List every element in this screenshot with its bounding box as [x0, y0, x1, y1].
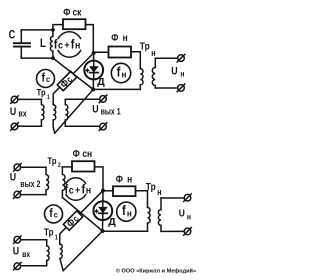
wire Uvyh1 bottom	[65, 125, 99, 127]
capacitor C	[14, 30, 30, 58]
label Uvyh1	[92, 104, 121, 117]
annotation circle fc+fn	[58, 32, 80, 39]
svg-text:н: н	[75, 40, 80, 52]
label fc+fn	[54, 37, 81, 52]
svg-text:сн: сн	[82, 148, 92, 160]
label L	[40, 37, 46, 50]
output terminal Un bottom (bottom)	[184, 228, 192, 236]
output terminal Uvyh2 top	[14, 164, 22, 172]
svg-text:н: н	[180, 69, 184, 79]
input terminal Uvx top	[11, 96, 19, 104]
filter box Fn (bottom)	[113, 186, 136, 196]
wire top junction to Fn box	[94, 51, 109, 53]
svg-text:Тр: Тр	[140, 41, 150, 53]
label Fn (bottom)	[116, 174, 133, 186]
label Fn (top)	[111, 32, 128, 44]
svg-text:Тр: Тр	[48, 155, 57, 166]
wire tank top to filter Fsk	[53, 25, 63, 30]
svg-text:© ООО «Кирилл и Мефодий»: © ООО «Кирилл и Мефодий»	[116, 267, 196, 274]
label fc+fn (bottom)	[65, 182, 92, 197]
annotation circle fc (bottom)	[45, 205, 63, 223]
output terminal Un bottom	[177, 84, 185, 92]
wire Un top	[155, 57, 177, 59]
svg-text:вых 2: вых 2	[20, 179, 41, 189]
svg-text:C: C	[9, 29, 16, 43]
transformer Trn primary winding (top)	[140, 69, 143, 90]
svg-text:Ф: Ф	[111, 32, 118, 44]
svg-text:с: с	[54, 210, 59, 220]
wire bottom junction to Trn primary bottom	[93, 88, 140, 90]
transformer Tr1 secondary winding	[53, 105, 56, 134]
svg-text:+: +	[75, 185, 80, 197]
label Uvx (bottom)	[13, 246, 31, 259]
diagonal wire Tr2 secondary bottom to bottom junction	[62, 198, 102, 232]
svg-text:Тр: Тр	[146, 181, 156, 193]
wire top junction to Fn box (bottom)	[103, 190, 113, 192]
input terminal Uvx top (bottom)	[14, 236, 22, 244]
transformer Tr2 secondary winding	[62, 167, 65, 198]
wire Un bottom (bottom)	[161, 230, 184, 232]
svg-text:с: с	[58, 40, 63, 52]
filter box Fsk	[63, 19, 86, 29]
diode D (bottom)	[93, 191, 112, 231]
wire Uvx bottom (bottom)	[21, 265, 47, 267]
svg-text:н: н	[122, 69, 127, 80]
label Uvx	[10, 106, 27, 119]
label Fsn	[73, 148, 93, 160]
input terminal Uvx bottom (bottom)	[14, 262, 22, 270]
transformer Tr2 primary winding	[46, 167, 49, 194]
svg-text:U: U	[179, 208, 185, 220]
svg-text:н: н	[123, 32, 128, 44]
label fc	[42, 72, 51, 85]
svg-text:+: +	[64, 40, 69, 52]
diagonal wire bottom junction to Tr1 secondary V vertex	[55, 89, 93, 133]
output terminal Uvyh1 bottom	[99, 123, 107, 131]
diode D (top)	[84, 53, 103, 89]
transformer Tr1 secondary winding (bottom)	[60, 244, 63, 271]
svg-text:н: н	[127, 174, 132, 186]
svg-text:Тр: Тр	[37, 87, 46, 98]
svg-text:Тр: Тр	[44, 227, 54, 238]
diagonal wire tank bottom to bottom junction	[53, 58, 93, 89]
label D (top)	[97, 76, 105, 88]
transformer Tr1 primary winding	[41, 99, 44, 126]
wire Fsn to top junction	[95, 167, 104, 191]
filter box Fc (tilted)	[57, 71, 76, 90]
svg-text:f: f	[49, 208, 53, 221]
wire Uvyh1 top	[65, 98, 99, 100]
svg-text:н: н	[151, 48, 155, 58]
wire Uvx top (bottom)	[21, 239, 47, 241]
wire Tr2 secondary to Fsn box	[62, 166, 72, 168]
diagonal wire top junction through Fc box to Tr1 secondary (bottom)	[60, 191, 103, 244]
wire Uvyh2 bottom	[21, 194, 46, 196]
svg-text:н: н	[127, 208, 132, 219]
svg-text:н: н	[187, 212, 191, 222]
svg-text:1: 1	[55, 234, 59, 242]
diagonal wire top junction through Fc box to Tr1 secondary	[53, 53, 93, 105]
label Fc tilted (bottom)	[65, 213, 81, 229]
svg-text:f: f	[42, 72, 46, 85]
label C	[9, 29, 16, 43]
wire tank top	[21, 29, 53, 31]
label Tr1 (bottom)	[44, 227, 58, 242]
label Un (top)	[171, 66, 185, 79]
label Uvyh2	[10, 172, 41, 189]
label Trn (top)	[140, 41, 156, 58]
inductor L	[50, 30, 52, 58]
svg-text:вых 1: вых 1	[101, 107, 122, 117]
wire Un top (bottom)	[161, 197, 184, 199]
wire Uvx top	[18, 98, 42, 100]
svg-text:вх: вх	[18, 109, 27, 119]
wire Fn box to Trn primary (bottom)	[136, 191, 148, 208]
svg-text:U: U	[13, 246, 19, 258]
svg-text:н: н	[157, 187, 161, 197]
svg-text:с: с	[46, 74, 51, 84]
transformer Trn primary winding (bottom)	[148, 207, 151, 231]
wire Un bottom	[155, 87, 177, 89]
svg-text:U: U	[10, 172, 16, 184]
svg-text:Д: Д	[108, 216, 116, 228]
filter box Fn (top)	[109, 47, 132, 58]
transformer Tr1 primary winding (bottom)	[47, 240, 49, 266]
svg-text:U: U	[171, 66, 177, 78]
wire tank bottom	[21, 57, 53, 59]
svg-text:с: с	[69, 185, 74, 197]
node top junction	[92, 51, 96, 55]
svg-text:н: н	[86, 185, 91, 197]
output terminal Un top (bottom)	[184, 194, 192, 202]
label Fsk	[63, 7, 81, 19]
node tank top junction	[51, 28, 55, 32]
input terminal Uvx bottom	[11, 123, 19, 131]
svg-text:Ф: Ф	[73, 148, 80, 160]
svg-text:Ф: Ф	[63, 7, 70, 19]
output terminal Un top	[177, 54, 185, 62]
svg-text:ск: ск	[73, 7, 82, 19]
node tank bottom junction	[51, 56, 55, 60]
wire Uvx bottom	[18, 125, 42, 127]
annotation circle fn (bottom)	[117, 202, 136, 221]
filter box Fc tilted (bottom)	[63, 211, 82, 230]
annotation circle fn (top)	[111, 63, 130, 82]
transformer Trn secondary winding (top)	[152, 58, 155, 88]
wire bottom junction to Trn primary bottom (bottom)	[103, 230, 148, 232]
diagonal wire bottom junction to Tr1 secondary V vertex (bottom)	[63, 231, 102, 271]
svg-text:U: U	[92, 104, 98, 116]
label D (bottom)	[108, 216, 116, 228]
svg-text:Ф: Ф	[116, 174, 123, 186]
wire Fsk to top node	[86, 25, 94, 53]
output terminal Uvyh1 top	[99, 95, 107, 103]
label fn (top)	[117, 64, 127, 79]
node bottom junction	[91, 87, 95, 91]
svg-text:L: L	[40, 37, 46, 50]
filter box Fsn	[72, 161, 95, 171]
node bottom junction (bottom circuit)	[101, 229, 105, 233]
wire Uvyh2 top	[21, 166, 46, 168]
label Tr2	[48, 155, 62, 169]
svg-text:вх: вх	[22, 249, 31, 259]
annotation circle fc+fn (bottom)	[66, 178, 86, 184]
output terminal Uvyh2 bottom	[14, 191, 22, 199]
label fc (bottom)	[49, 208, 58, 221]
svg-text:U: U	[10, 106, 16, 118]
node top junction (bottom circuit)	[101, 189, 105, 193]
transformer Trn secondary winding (bottom)	[158, 198, 161, 231]
svg-text:Д: Д	[97, 76, 105, 88]
wire Fn to Trn primary	[131, 52, 140, 69]
label Tr1	[37, 87, 51, 102]
annotation circle fc	[37, 70, 55, 88]
label Trn (bottom)	[146, 181, 162, 197]
label fn (bottom)	[122, 203, 132, 218]
label Un (bottom)	[179, 208, 192, 222]
label Fc tilted	[58, 74, 74, 90]
output winding Uvyh1	[65, 99, 68, 126]
